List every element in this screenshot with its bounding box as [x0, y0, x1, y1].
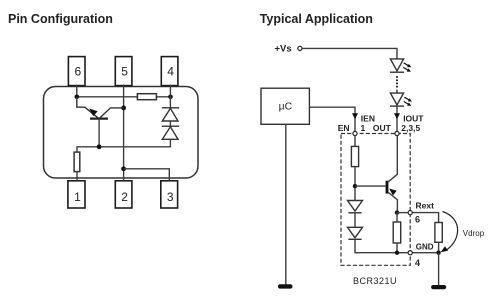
microcontroller box U1 — [261, 88, 309, 124]
node dot pin6-rail — [75, 95, 80, 100]
pin 5 — [115, 57, 132, 86]
wire between diodes — [354, 213, 356, 228]
svg-text:1: 1 — [361, 123, 366, 133]
svg-text:Rext: Rext — [416, 201, 435, 211]
transistor Q (application) — [386, 136, 398, 213]
node dot emitter — [395, 210, 399, 214]
terminal pin6 — [408, 211, 412, 215]
svg-text:3: 3 — [167, 190, 174, 204]
svg-text:EN: EN — [338, 123, 350, 133]
wire LED2 to OUT terminal — [396, 106, 398, 131]
emitter wire — [77, 97, 99, 119]
terminal pin1 — [353, 131, 357, 135]
ground (left) — [278, 284, 293, 288]
current arrow IEN — [352, 113, 358, 119]
svg-text:µC: µC — [279, 100, 293, 112]
resistor Rext — [435, 223, 442, 243]
emitter arrow — [389, 189, 397, 196]
wire to ground symbol — [438, 253, 440, 285]
base lead — [98, 119, 100, 147]
svg-text:Typical Application: Typical Application — [260, 12, 373, 26]
diode DA (application) — [348, 201, 363, 213]
svg-text:GND: GND — [416, 243, 434, 252]
svg-text:6: 6 — [74, 64, 81, 78]
emitter wire — [388, 193, 397, 213]
svg-text:BCR321U: BCR321U — [353, 276, 397, 286]
terminal pin4 GND — [408, 251, 412, 255]
wire top rail — [77, 96, 171, 98]
transistor Q1 — [77, 97, 124, 147]
wire µC to ground — [285, 124, 287, 284]
wire resistor to pin1 — [76, 172, 78, 181]
collector wire — [100, 108, 124, 118]
resistor R1 (horizontal) — [137, 94, 156, 100]
svg-text:2: 2 — [121, 190, 128, 204]
collector wire — [388, 136, 397, 182]
node dot Rext-GND — [436, 251, 440, 255]
wire R1 to node — [354, 167, 356, 201]
svg-text:4: 4 — [167, 64, 174, 78]
wire base — [355, 185, 386, 187]
svg-text:Vdrop: Vdrop — [463, 229, 485, 238]
wire pin2 to pin3 — [124, 169, 170, 181]
wire R2 to GND rail — [396, 243, 398, 253]
Vdrop arc — [443, 212, 458, 251]
emitter arrow — [89, 109, 97, 117]
wire µC to EN — [309, 107, 355, 131]
node dot base — [353, 184, 357, 188]
base bar — [386, 181, 389, 194]
pin 3 — [161, 181, 178, 208]
wire between diodes — [169, 121, 171, 126]
wire pin6 to Rext — [412, 213, 438, 223]
svg-text:IOUT: IOUT — [403, 113, 424, 123]
pin 4 — [161, 57, 178, 86]
wire emitter to R2 — [396, 213, 398, 222]
wire diode to GND rail — [355, 239, 408, 252]
package body — [44, 87, 199, 179]
terminal +Vs — [298, 46, 302, 50]
dotted wire (more LEDs) — [396, 76, 398, 88]
svg-text:2,3,5: 2,3,5 — [401, 123, 420, 133]
wire +Vs to LED — [302, 48, 397, 59]
svg-text:OUT: OUT — [373, 123, 392, 133]
base wire horizontal — [77, 139, 170, 152]
wire dotted to LED2 — [396, 90, 398, 94]
Vdrop arrowhead — [441, 246, 448, 252]
diode D1 (package, pointing up) — [162, 108, 179, 121]
wire GND terminal to ground — [412, 252, 438, 254]
LED D3 — [390, 59, 411, 72]
node dot rail-pin4 — [168, 95, 173, 100]
wire Rext to GND node — [438, 242, 440, 252]
wire pin6 stub — [76, 85, 78, 97]
ground (right) — [431, 285, 446, 289]
wire pin1 to R1 — [354, 136, 356, 147]
node dot base — [97, 144, 102, 149]
svg-text:4: 4 — [415, 258, 420, 268]
svg-text:IEN: IEN — [361, 113, 375, 123]
diode D2 (package, pointing up) — [162, 126, 179, 139]
terminal OUT — [395, 131, 399, 135]
node dot R2-GND — [395, 251, 399, 255]
wire pin4 to diode — [169, 85, 171, 108]
resistor R2 (vertical) — [74, 152, 80, 172]
svg-text:Pin Configuration: Pin Configuration — [8, 12, 113, 26]
pin 1 — [68, 181, 85, 208]
pin 2 — [115, 181, 132, 208]
wire pin5 to pin2 vertical — [123, 85, 125, 181]
node dot collector — [121, 106, 126, 111]
svg-text:5: 5 — [121, 64, 128, 78]
current arrow IOUT — [394, 113, 400, 119]
wire emitter to pin6 — [397, 212, 408, 214]
diode DB (application) — [348, 227, 363, 239]
base bar — [90, 117, 108, 119]
svg-text:6: 6 — [415, 215, 420, 225]
svg-text:1: 1 — [74, 190, 81, 204]
LED D4 — [390, 93, 412, 106]
resistor R2 (internal) — [393, 222, 401, 243]
pin 6 — [68, 57, 85, 86]
resistor R1 (internal) — [351, 146, 358, 166]
dashed device outline BCR321U — [341, 134, 410, 266]
node dot pin2 branch — [121, 166, 126, 171]
svg-text:+Vs: +Vs — [275, 44, 292, 55]
